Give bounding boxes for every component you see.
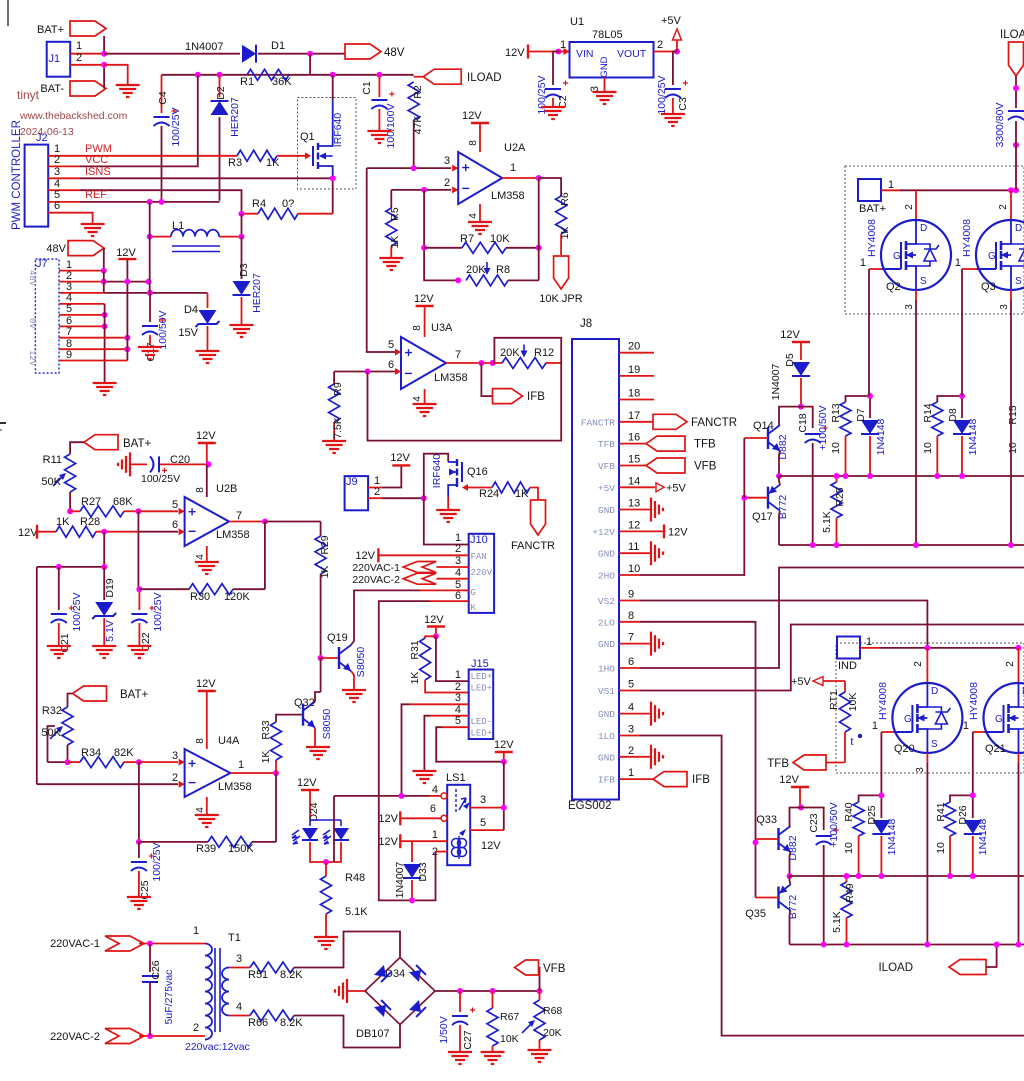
ground C25 bbox=[127, 897, 151, 909]
wire D1 anode bbox=[104, 53, 240, 55]
svg-text:12V: 12V bbox=[116, 247, 136, 259]
svg-text:R8: R8 bbox=[496, 264, 510, 276]
ground U3A bbox=[413, 404, 437, 416]
svg-text:R30: R30 bbox=[190, 591, 210, 603]
node R25 bot bbox=[834, 542, 840, 548]
ground C22 bbox=[127, 646, 151, 658]
wire R30 to out bbox=[264, 522, 266, 590]
svg-text:R7: R7 bbox=[460, 233, 474, 245]
svg-text:12V: 12V bbox=[196, 678, 216, 690]
ground D4 bbox=[196, 351, 220, 363]
svg-text:J15: J15 bbox=[471, 658, 489, 670]
wire Q14 ce bbox=[779, 424, 780, 426]
op-amp U3A bbox=[401, 337, 446, 389]
wire U2B out bbox=[229, 521, 265, 523]
svg-text:10K: 10K bbox=[500, 1033, 519, 1045]
node R25 top bbox=[834, 473, 840, 479]
connector J15 bbox=[469, 670, 494, 740]
svg-text:15: 15 bbox=[628, 454, 640, 466]
svg-text:1: 1 bbox=[963, 720, 969, 732]
svg-text:HY4008: HY4008 bbox=[877, 682, 889, 720]
svg-text:100/25V: 100/25V bbox=[170, 107, 182, 146]
ground Q32 bbox=[306, 747, 330, 759]
node C27 top bbox=[457, 988, 463, 994]
svg-text:IND: IND bbox=[838, 660, 857, 672]
svg-text:U2B: U2B bbox=[216, 483, 237, 495]
wire Q14 base bbox=[744, 437, 768, 439]
node C26 top bbox=[147, 941, 153, 947]
svg-text:C4: C4 bbox=[157, 91, 169, 105]
svg-text:D24: D24 bbox=[308, 802, 320, 821]
diode D5 1N4007 bbox=[792, 362, 810, 376]
wire D19 drop bbox=[103, 532, 105, 567]
potentiometer R12 20K bbox=[493, 362, 503, 364]
wire U2A gnd bbox=[479, 204, 481, 221]
wire D34 out bbox=[435, 990, 540, 992]
node J7 pin7 bbox=[124, 335, 130, 341]
connector J1 bbox=[47, 42, 70, 77]
svg-text:5: 5 bbox=[388, 339, 394, 351]
node J1 pin2 bbox=[101, 62, 107, 68]
potentiometer R8 20K bbox=[466, 275, 508, 286]
svg-text:8: 8 bbox=[412, 325, 423, 331]
resistor R67 10K bbox=[492, 991, 494, 1008]
svg-text:4: 4 bbox=[455, 567, 461, 579]
svg-text:1: 1 bbox=[888, 179, 894, 191]
svg-text:4: 4 bbox=[412, 396, 423, 402]
svg-text:5.1K: 5.1K bbox=[831, 911, 843, 933]
svg-text:U2A: U2A bbox=[504, 142, 526, 154]
svg-text:6: 6 bbox=[172, 519, 178, 531]
svg-text:R33: R33 bbox=[260, 720, 272, 739]
svg-text:11: 11 bbox=[628, 541, 639, 553]
svg-text:U3A: U3A bbox=[431, 322, 453, 334]
wire T1 pin4 bbox=[229, 1015, 250, 1017]
node U2A out bbox=[536, 175, 542, 181]
resistor R41 10 bbox=[950, 795, 973, 802]
svg-text:D1: D1 bbox=[271, 40, 285, 52]
wire R4 left bbox=[242, 213, 259, 215]
svg-text:1K: 1K bbox=[319, 566, 331, 579]
port 10K JPR bbox=[554, 256, 569, 289]
svg-text:220VAC-2: 220VAC-2 bbox=[50, 1031, 100, 1043]
svg-text:7: 7 bbox=[628, 632, 634, 644]
node L1 left bbox=[147, 234, 153, 240]
rail gate2 476 bbox=[779, 475, 1024, 477]
connector J2 bbox=[25, 145, 49, 227]
svg-text:D25: D25 bbox=[866, 805, 878, 824]
svg-text:5: 5 bbox=[628, 679, 634, 691]
wire Q21 source bbox=[1018, 753, 1020, 763]
svg-text:J9: J9 bbox=[346, 476, 358, 488]
svg-text:+5V: +5V bbox=[661, 15, 682, 27]
wire U2A pin3 row bbox=[367, 167, 451, 169]
diode D1 bbox=[242, 45, 256, 63]
svg-text:6: 6 bbox=[628, 656, 634, 668]
svg-text:50K: 50K bbox=[41, 727, 61, 739]
wire left riser bbox=[36, 567, 38, 784]
port VFB bottom bbox=[515, 960, 539, 975]
svg-text:LED+: LED+ bbox=[471, 684, 493, 694]
svg-text:5: 5 bbox=[66, 303, 72, 315]
node Q20 drain bbox=[924, 645, 930, 651]
node R28 right bbox=[101, 529, 107, 535]
potentiometer R11 50K bbox=[65, 454, 76, 492]
svg-text:3: 3 bbox=[999, 304, 1010, 310]
ground J7 bbox=[93, 383, 117, 395]
node D5 out bbox=[798, 404, 804, 410]
svg-text:R32: R32 bbox=[42, 705, 62, 717]
svg-text:Q1: Q1 bbox=[300, 131, 315, 143]
svg-text:+100/50V: +100/50V bbox=[828, 802, 840, 847]
node Q14 emitter bbox=[776, 473, 782, 479]
svg-text:5.1K: 5.1K bbox=[821, 511, 833, 533]
svg-text:1: 1 bbox=[76, 40, 82, 52]
node R49 top bbox=[844, 873, 850, 879]
wire R32 wiper2 bbox=[48, 761, 68, 763]
wire J15 pin4 bbox=[430, 715, 469, 717]
svg-text:12V: 12V bbox=[27, 350, 37, 367]
ground C17 bbox=[138, 347, 162, 359]
dashed box Q1 bbox=[298, 98, 357, 190]
svg-text:20K: 20K bbox=[500, 347, 520, 359]
capacitor C20 bbox=[118, 452, 130, 476]
svg-text:BAT+: BAT+ bbox=[123, 438, 152, 450]
svg-text:IRF640: IRF640 bbox=[431, 454, 443, 489]
svg-text:C23: C23 bbox=[808, 813, 820, 832]
svg-text:2: 2 bbox=[444, 177, 450, 189]
wire U3A gnd bbox=[424, 389, 426, 403]
svg-text:TFB: TFB bbox=[598, 439, 615, 450]
node R31 top bbox=[433, 633, 439, 639]
svg-text:220VAC-2: 220VAC-2 bbox=[352, 574, 400, 586]
svg-text:+5V: +5V bbox=[791, 676, 812, 688]
ground U2A bbox=[468, 222, 492, 234]
svg-text:C1: C1 bbox=[361, 81, 373, 95]
svg-text:3: 3 bbox=[455, 692, 461, 704]
svg-text:R12: R12 bbox=[534, 347, 554, 359]
svg-text:14: 14 bbox=[628, 475, 640, 487]
svg-text:3300/80V: 3300/80V bbox=[994, 103, 1006, 148]
svg-text:1K: 1K bbox=[559, 227, 571, 240]
svg-text:3: 3 bbox=[444, 155, 450, 167]
wire Q33 base bbox=[756, 838, 779, 840]
svg-text:7.5K: 7.5K bbox=[332, 417, 344, 439]
wire Q1 source bbox=[332, 175, 334, 214]
wire Q1 drain bbox=[332, 75, 334, 100]
svg-text:1: 1 bbox=[860, 257, 866, 269]
svg-text:1N4007: 1N4007 bbox=[770, 363, 782, 400]
wire R3 to gate bbox=[277, 155, 305, 157]
svg-text:G: G bbox=[988, 251, 996, 262]
port IFB J8 bbox=[653, 772, 687, 787]
svg-text:1: 1 bbox=[510, 162, 516, 174]
svg-text:+12V: +12V bbox=[592, 527, 615, 538]
svg-text:12: 12 bbox=[628, 519, 640, 531]
svg-text:www.thebackshed.com: www.thebackshed.com bbox=[19, 110, 128, 122]
wire base bus bbox=[743, 438, 745, 498]
wire Q17 ce bbox=[779, 476, 780, 485]
wire R24 to port bbox=[530, 488, 538, 501]
svg-text:100/25V: 100/25V bbox=[141, 473, 180, 485]
svg-text:20K: 20K bbox=[543, 1027, 562, 1039]
node Q33 collector bbox=[798, 805, 804, 811]
svg-text:LM358: LM358 bbox=[216, 529, 250, 541]
resistor R49 5.1K bbox=[846, 876, 848, 882]
svg-text:2: 2 bbox=[998, 204, 1009, 210]
node R14 bot bbox=[934, 473, 940, 479]
node C26 bot bbox=[147, 1033, 153, 1039]
svg-text:12V: 12V bbox=[18, 527, 38, 539]
wire R4 right bbox=[298, 213, 333, 215]
svg-text:1K: 1K bbox=[266, 157, 280, 169]
svg-text:Q21: Q21 bbox=[985, 743, 1006, 755]
wire U4A pin3 bbox=[139, 761, 178, 763]
resistor R31 1K bbox=[425, 636, 436, 638]
svg-text:C26: C26 bbox=[150, 960, 162, 979]
svg-text:2: 2 bbox=[628, 745, 634, 757]
resistor R27 68K bbox=[70, 510, 80, 512]
svg-text:100/25V: 100/25V bbox=[151, 842, 163, 881]
svg-text:GND: GND bbox=[598, 752, 615, 763]
svg-text:R27: R27 bbox=[81, 496, 101, 508]
wire Q19 emitter bbox=[351, 671, 354, 689]
svg-text:2: 2 bbox=[657, 39, 663, 51]
wire Q16 drain link bbox=[424, 454, 448, 499]
ground C21 bbox=[47, 646, 71, 658]
svg-text:R41: R41 bbox=[935, 802, 947, 821]
node U3A pin6 bbox=[365, 369, 371, 375]
op-amp U4A bbox=[185, 749, 231, 797]
svg-text:2: 2 bbox=[1005, 661, 1016, 667]
node ISNS Q1 bbox=[330, 175, 336, 181]
resistor R51 8.2K bbox=[250, 962, 294, 973]
resistor R25 5.1K bbox=[836, 476, 838, 482]
svg-text:10K JPR: 10K JPR bbox=[539, 293, 582, 305]
wire J7 48V bus bbox=[103, 271, 105, 293]
svg-text:20K: 20K bbox=[466, 264, 486, 276]
rail src1 944 bbox=[790, 944, 1024, 946]
node Q2 source bbox=[913, 542, 919, 548]
svg-text:R9: R9 bbox=[332, 382, 344, 396]
svg-text:1: 1 bbox=[560, 39, 566, 51]
zener D4 15V bbox=[207, 293, 209, 308]
svg-text:48V: 48V bbox=[27, 270, 37, 287]
node U3A out b bbox=[490, 360, 496, 366]
svg-text:6: 6 bbox=[430, 803, 436, 815]
svg-text:1K: 1K bbox=[56, 516, 70, 528]
ground R5 bbox=[379, 258, 403, 270]
svg-text:D7: D7 bbox=[855, 408, 867, 422]
node cap top bbox=[1013, 85, 1019, 91]
node D8 bot bbox=[959, 473, 965, 479]
svg-text:R68: R68 bbox=[543, 1005, 562, 1017]
svg-text:12V: 12V bbox=[297, 777, 317, 789]
potentiometer R68 20K bbox=[539, 991, 541, 1000]
svg-text:+5V: +5V bbox=[666, 482, 687, 494]
svg-text:100/25V: 100/25V bbox=[656, 75, 668, 114]
node cap rail bbox=[1013, 187, 1019, 193]
svg-text:S8050: S8050 bbox=[355, 647, 367, 678]
wire J15 pin5 bbox=[442, 726, 469, 728]
svg-text:VS2: VS2 bbox=[598, 596, 615, 607]
diode D33 1N4007 bbox=[411, 841, 413, 862]
svg-text:D: D bbox=[920, 223, 927, 234]
ground Q19 bbox=[342, 690, 366, 702]
svg-text:4: 4 bbox=[468, 213, 479, 219]
svg-text:D4: D4 bbox=[184, 304, 198, 316]
port FANCTR J8 bbox=[653, 414, 687, 429]
ground R67 bbox=[481, 1052, 505, 1064]
svg-text:100/25V: 100/25V bbox=[71, 592, 83, 631]
svg-text:J1: J1 bbox=[49, 53, 61, 65]
svg-text:2: 2 bbox=[455, 543, 461, 555]
svg-text:+100/50V: +100/50V bbox=[817, 405, 829, 450]
wire VFB drop bbox=[538, 968, 541, 992]
svg-text:18: 18 bbox=[628, 388, 640, 400]
node R41 bot bbox=[947, 873, 953, 879]
svg-text:BAT+: BAT+ bbox=[120, 689, 149, 701]
node D25 bot bbox=[878, 873, 884, 879]
zener D19 5.1V bbox=[103, 567, 105, 600]
svg-text:VIN: VIN bbox=[576, 48, 594, 60]
svg-text:C18: C18 bbox=[797, 413, 809, 432]
capacitor C17 bbox=[149, 293, 151, 322]
svg-text:FAN: FAN bbox=[471, 552, 487, 562]
ground Q16 bbox=[436, 510, 460, 522]
wire U2A-U3A link bbox=[367, 168, 395, 352]
svg-text:Q14: Q14 bbox=[753, 420, 774, 432]
svg-text:10K: 10K bbox=[490, 233, 510, 245]
svg-text:D3: D3 bbox=[238, 263, 250, 277]
svg-text:48V: 48V bbox=[384, 47, 405, 59]
svg-text:GND: GND bbox=[598, 549, 615, 560]
ground R68 bbox=[528, 1050, 552, 1062]
node C23 bot bbox=[821, 942, 827, 948]
wire J15 pin3 bbox=[410, 703, 469, 705]
svg-text:1N4148: 1N4148 bbox=[977, 818, 989, 855]
capacitor C5 3300/80V bbox=[1008, 110, 1024, 112]
resistor R3 1K bbox=[237, 150, 277, 161]
wire U1 out bbox=[654, 51, 678, 53]
node U3A out a bbox=[478, 360, 484, 366]
svg-text:R14: R14 bbox=[922, 403, 934, 422]
svg-text:IRF640: IRF640 bbox=[332, 113, 344, 148]
svg-text:120K: 120K bbox=[224, 591, 250, 603]
node D33 bottom bbox=[409, 897, 415, 903]
wire cap to rail bbox=[1015, 121, 1017, 190]
wire BAT+ to R32 bbox=[68, 694, 73, 708]
svg-text:3: 3 bbox=[236, 953, 242, 965]
op-amp U2B bbox=[185, 497, 229, 546]
svg-text:12V: 12V bbox=[378, 813, 398, 825]
border tick left edge bbox=[0, 422, 6, 424]
wire R27-R30 drop bbox=[137, 511, 139, 589]
svg-text:4: 4 bbox=[628, 702, 634, 714]
diode D8 1N4148 bbox=[961, 396, 963, 418]
svg-text:10: 10 bbox=[628, 563, 640, 575]
svg-text:IFB: IFB bbox=[692, 774, 710, 786]
node R34 right bbox=[136, 759, 142, 765]
node C18 bot bbox=[810, 542, 816, 548]
wire T1 pin3 bbox=[229, 967, 250, 969]
ground R9 bbox=[322, 441, 346, 453]
svg-text:12V: 12V bbox=[390, 452, 410, 464]
svg-text:GND: GND bbox=[598, 709, 615, 720]
port 220VAC-1 mid bbox=[403, 562, 436, 573]
svg-text:2: 2 bbox=[193, 1022, 199, 1034]
svg-text:1: 1 bbox=[432, 829, 438, 841]
node R32 R34 bbox=[65, 759, 71, 765]
svg-text:IFB: IFB bbox=[598, 775, 615, 786]
svg-text:220VAC-1: 220VAC-1 bbox=[352, 562, 400, 574]
svg-text:R1: R1 bbox=[240, 76, 254, 88]
svg-text:12V: 12V bbox=[196, 430, 216, 442]
svg-text:tinyt: tinyt bbox=[17, 88, 40, 102]
node cap bot bbox=[1013, 142, 1019, 148]
wire 48V rail bbox=[162, 74, 414, 76]
svg-text:D19: D19 bbox=[104, 578, 116, 597]
svg-text:100/25V: 100/25V bbox=[536, 75, 548, 114]
svg-text:R66: R66 bbox=[248, 1017, 268, 1029]
ground C1 bbox=[367, 131, 391, 143]
resistor R29 1K bbox=[320, 522, 322, 537]
svg-text:G: G bbox=[471, 588, 476, 598]
capacitor C26 bbox=[149, 944, 151, 973]
resistor R6 1K bbox=[539, 178, 561, 196]
node Q1 drain bbox=[330, 72, 336, 78]
svg-text:BAT-: BAT- bbox=[40, 83, 64, 95]
diode D7 1N4148 bbox=[869, 396, 871, 418]
wire Q32 collector bbox=[315, 692, 321, 702]
ground D34 left bbox=[348, 990, 365, 992]
svg-text:LED+: LED+ bbox=[471, 672, 493, 682]
svg-text:R6: R6 bbox=[559, 192, 571, 206]
svg-text:1: 1 bbox=[628, 767, 634, 779]
node R27 right bbox=[135, 508, 141, 514]
wire D1 cathode bbox=[258, 53, 345, 55]
wire Q32 emitter bbox=[314, 728, 316, 746]
wire Q16 gate bbox=[462, 484, 468, 491]
wire R32 wiper bbox=[48, 726, 56, 762]
wire row 567 bbox=[37, 566, 104, 568]
svg-text:LM358: LM358 bbox=[491, 190, 525, 202]
connector J7 dashed bbox=[35, 259, 59, 373]
svg-text:GND: GND bbox=[598, 505, 615, 516]
svg-text:1: 1 bbox=[238, 759, 244, 771]
wire L1 left bbox=[150, 236, 171, 238]
ground J2 pin6 bbox=[81, 224, 105, 236]
svg-text:C22: C22 bbox=[140, 632, 152, 651]
rail vs2 545 bbox=[779, 544, 1024, 546]
wire R39 drop bbox=[138, 762, 140, 842]
wire R66 to bridge bbox=[294, 1016, 400, 1048]
wire Q33 collector bbox=[790, 808, 802, 827]
svg-text:D2: D2 bbox=[215, 86, 227, 100]
node J7 pin6 bbox=[102, 323, 108, 329]
wire J7 0V bus bbox=[104, 304, 106, 382]
capacitor C1 bbox=[378, 75, 380, 97]
svg-text:12V: 12V bbox=[505, 47, 525, 59]
diode D25 1N4148 bbox=[880, 795, 882, 818]
svg-text:GND: GND bbox=[598, 639, 615, 650]
capacitor C4 bbox=[161, 75, 163, 113]
port FANCTR mid bbox=[531, 500, 546, 535]
node Q33 emitter bbox=[787, 873, 793, 879]
svg-text:LED+: LED+ bbox=[471, 729, 493, 739]
node R7 right bbox=[536, 245, 542, 251]
node J7 pin8 bbox=[124, 346, 130, 352]
